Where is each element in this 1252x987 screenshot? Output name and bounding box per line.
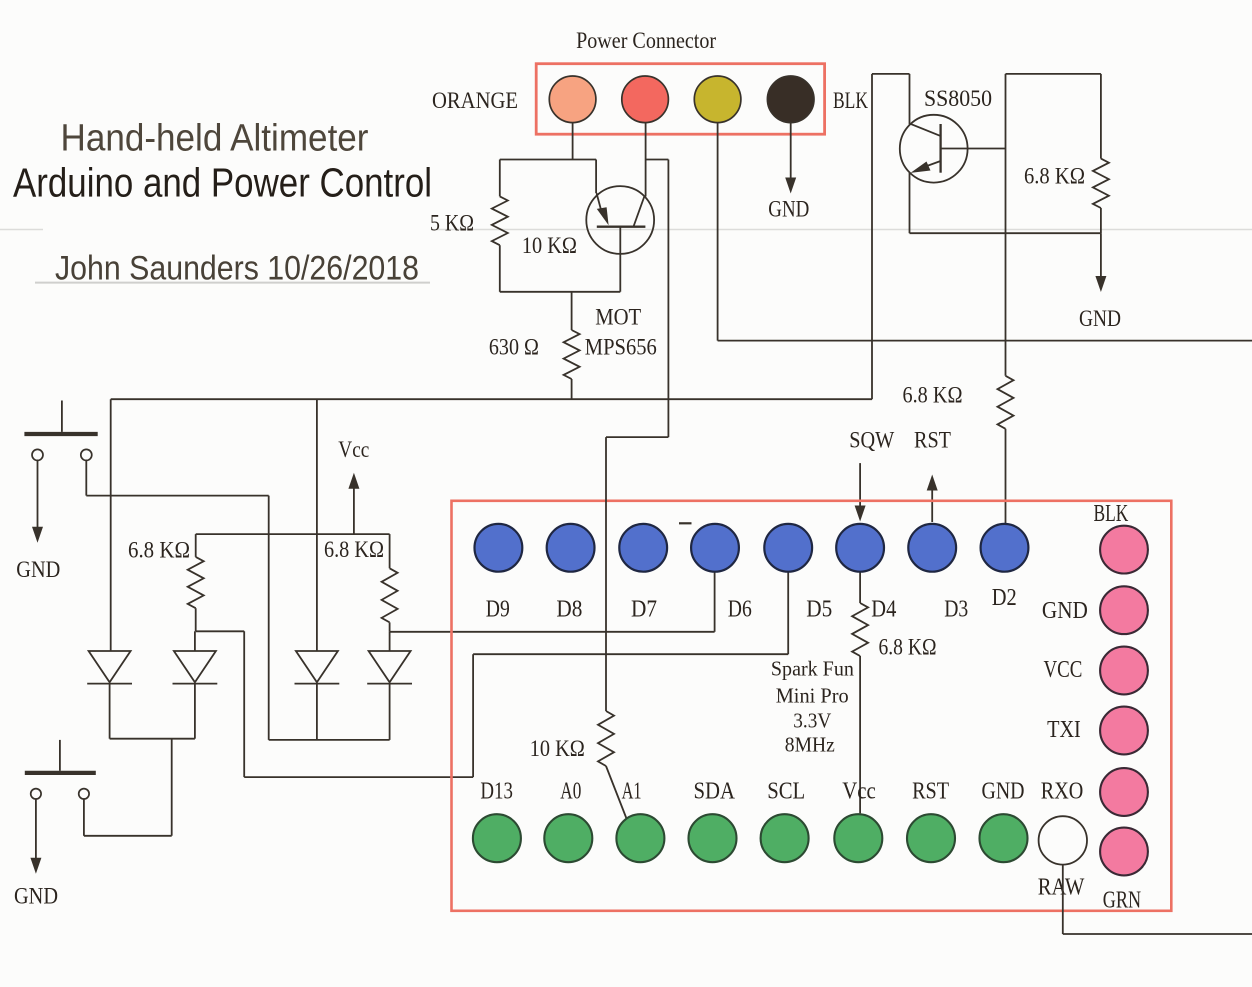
svg-text:GND: GND (14, 884, 58, 909)
svg-text:GND: GND (768, 197, 809, 222)
svg-text:SCL: SCL (767, 778, 805, 804)
svg-text:10 KΩ: 10 KΩ (530, 736, 585, 761)
svg-text:3.3V: 3.3V (793, 709, 831, 733)
svg-text:Power Connector: Power Connector (576, 28, 716, 53)
svg-text:VCC: VCC (1044, 657, 1083, 683)
svg-text:SS8050: SS8050 (924, 86, 992, 111)
svg-text:RST: RST (912, 778, 949, 804)
svg-text:6.8 KΩ: 6.8 KΩ (879, 635, 937, 660)
svg-text:John Saunders 10/26/2018: John Saunders 10/26/2018 (55, 250, 419, 288)
svg-text:D9: D9 (486, 597, 510, 623)
svg-text:6.8 KΩ: 6.8 KΩ (324, 537, 384, 562)
svg-text:GND: GND (982, 778, 1025, 804)
svg-text:MOT: MOT (595, 305, 641, 330)
svg-text:GND: GND (16, 557, 60, 582)
svg-text:8MHz: 8MHz (785, 733, 835, 757)
svg-text:RXO: RXO (1041, 778, 1084, 804)
svg-text:D2: D2 (992, 585, 1017, 611)
svg-text:RAW: RAW (1038, 875, 1085, 901)
svg-text:BLK: BLK (1094, 501, 1129, 527)
svg-text:Vcc: Vcc (842, 778, 876, 804)
svg-text:Mini Pro: Mini Pro (776, 684, 849, 708)
svg-text:ORANGE: ORANGE (432, 88, 518, 113)
svg-text:A0: A0 (560, 778, 581, 804)
svg-text:MPS656: MPS656 (585, 335, 657, 360)
svg-text:SQW: SQW (849, 428, 894, 453)
svg-text:Vcc: Vcc (338, 437, 369, 462)
svg-text:6.8 KΩ: 6.8 KΩ (903, 383, 963, 408)
svg-text:GND: GND (1079, 306, 1121, 331)
svg-text:5 KΩ: 5 KΩ (430, 210, 474, 235)
svg-text:A1: A1 (622, 778, 642, 804)
svg-text:Hand-held Altimeter: Hand-held Altimeter (61, 118, 369, 160)
svg-text:RST: RST (914, 428, 951, 453)
svg-text:6.8 KΩ: 6.8 KΩ (1024, 163, 1085, 188)
svg-text:630 Ω: 630 Ω (489, 335, 539, 360)
svg-text:D6: D6 (728, 597, 752, 623)
svg-text:D3: D3 (944, 597, 968, 623)
svg-text:BLK: BLK (833, 88, 868, 113)
svg-text:Arduino and Power Control: Arduino and Power Control (13, 160, 432, 206)
svg-text:6.8 KΩ: 6.8 KΩ (128, 538, 190, 563)
svg-text:GRN: GRN (1103, 888, 1141, 914)
svg-text:GND: GND (1042, 598, 1088, 624)
svg-text:D4: D4 (871, 597, 896, 623)
svg-text:D5: D5 (806, 597, 832, 623)
svg-text:10 KΩ: 10 KΩ (522, 233, 577, 258)
svg-text:D8: D8 (556, 597, 582, 623)
svg-text:SDA: SDA (694, 778, 736, 804)
svg-text:TXI: TXI (1047, 717, 1081, 743)
svg-text:Spark Fun: Spark Fun (771, 657, 854, 681)
svg-text:D13: D13 (480, 778, 513, 804)
svg-text:D7: D7 (631, 597, 657, 623)
